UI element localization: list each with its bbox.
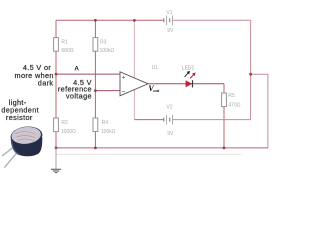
svg-text:470Ω: 470Ω bbox=[228, 102, 240, 108]
wire centre column R3 R4 bbox=[94, 20, 96, 148]
wire op-amp supply column bbox=[133, 20, 135, 119]
op-amp U1 bbox=[120, 72, 148, 96]
ground bbox=[51, 148, 61, 173]
LED LED1 bbox=[185, 71, 196, 88]
wire left column R1 R2 bbox=[55, 20, 57, 148]
svg-text:1000Ω: 1000Ω bbox=[61, 129, 76, 135]
svg-text:R4: R4 bbox=[102, 120, 109, 126]
node bottom rail left bbox=[55, 147, 58, 150]
svg-text:V2: V2 bbox=[166, 105, 172, 111]
node right branch bbox=[249, 73, 252, 76]
battery V2 bbox=[164, 115, 173, 125]
node reference divider tap bbox=[94, 89, 97, 92]
wire non-inverting input bbox=[56, 73, 120, 75]
svg-text:9V: 9V bbox=[167, 28, 174, 34]
wire bottom rail bbox=[56, 147, 268, 149]
svg-text:680Ω: 680Ω bbox=[61, 48, 73, 54]
svg-text:R5: R5 bbox=[228, 93, 235, 99]
wire top rail left of V1 bbox=[56, 19, 164, 21]
resistor R5 bbox=[222, 93, 227, 107]
wire right vertical bbox=[250, 20, 252, 119]
svg-text:A: A bbox=[74, 66, 79, 73]
wire outer right branch bbox=[251, 74, 268, 148]
svg-text:dark: dark bbox=[38, 79, 54, 88]
wire inverting input bbox=[95, 90, 120, 92]
resistor R1 bbox=[54, 38, 59, 52]
svg-text:out: out bbox=[153, 88, 160, 93]
resistor R4 bbox=[93, 118, 98, 132]
svg-text:resistor: resistor bbox=[6, 113, 33, 122]
svg-text:U1: U1 bbox=[152, 65, 159, 71]
svg-text:R2: R2 bbox=[61, 120, 68, 126]
svg-text:100kΩ: 100kΩ bbox=[100, 48, 115, 54]
resistor R3 bbox=[93, 38, 98, 52]
node op-amp V+ on rail bbox=[133, 19, 136, 22]
wire output to LED and R5 bbox=[148, 83, 224, 85]
node A junction left divider bbox=[55, 73, 58, 76]
wire V2 row left bbox=[134, 119, 163, 121]
LDR photo bbox=[2, 125, 43, 168]
svg-text:voltage: voltage bbox=[66, 91, 92, 100]
wire top rail right of V1 bbox=[173, 19, 251, 21]
node bottom rail R5 bbox=[223, 147, 226, 150]
node bottom rail centre bbox=[94, 147, 97, 150]
svg-text:100kΩ: 100kΩ bbox=[101, 129, 116, 135]
svg-text:LED1: LED1 bbox=[182, 65, 195, 71]
node top of R3 bbox=[94, 19, 97, 22]
svg-text:V1: V1 bbox=[166, 10, 172, 16]
wire ghost line bbox=[56, 153, 241, 155]
svg-text:9V: 9V bbox=[167, 131, 174, 137]
resistor R2 bbox=[54, 118, 59, 132]
svg-text:R1: R1 bbox=[61, 39, 68, 45]
svg-text:R3: R3 bbox=[100, 39, 107, 45]
battery V1 bbox=[164, 16, 173, 26]
wire V2 row right bbox=[173, 119, 251, 121]
wire R5 column bbox=[223, 84, 225, 148]
